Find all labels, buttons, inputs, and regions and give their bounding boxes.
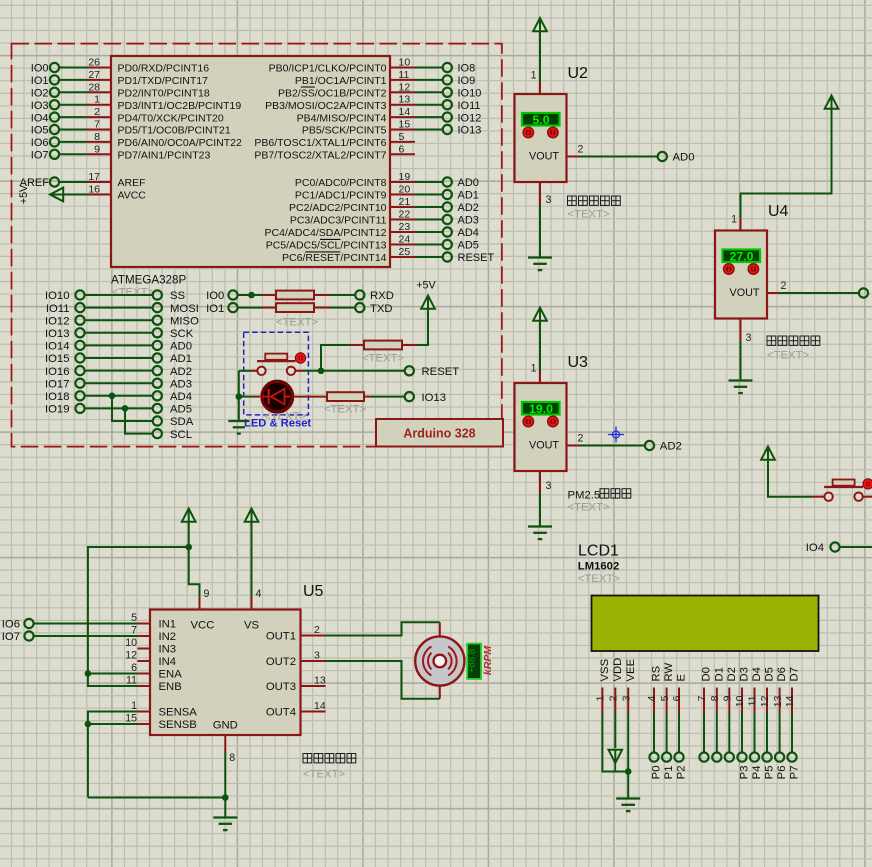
svg-text:+88.8: +88.8	[466, 649, 477, 673]
svg-text:OUT3: OUT3	[266, 681, 296, 693]
svg-text:LCD1: LCD1	[578, 543, 619, 560]
svg-text:3: 3	[546, 194, 552, 206]
svg-text:PC0/ADC0/PCINT8: PC0/ADC0/PCINT8	[295, 177, 387, 189]
svg-text:PB1/OC1A/PCINT1: PB1/OC1A/PCINT1	[295, 75, 387, 87]
svg-text:<TEXT>: <TEXT>	[276, 317, 318, 329]
svg-text:AD0: AD0	[458, 177, 479, 189]
svg-text:U4: U4	[768, 203, 789, 220]
svg-text:E: E	[676, 674, 688, 682]
svg-text:P7: P7	[789, 766, 801, 780]
svg-text:PM2.5: PM2.5	[568, 490, 601, 502]
svg-text:IO1: IO1	[206, 303, 224, 315]
svg-text:IO17: IO17	[45, 378, 70, 390]
svg-text:IO19: IO19	[45, 404, 70, 416]
svg-text:15: 15	[125, 712, 137, 724]
svg-text:IO5: IO5	[31, 125, 49, 137]
svg-text:IO13: IO13	[45, 328, 70, 340]
svg-text:PB0/ICP1/CLKO/PCINT0: PB0/ICP1/CLKO/PCINT0	[269, 63, 387, 75]
svg-text:IO6: IO6	[31, 137, 49, 149]
svg-text:PB7/TOSC2/XTAL2/PCINT7: PB7/TOSC2/XTAL2/PCINT7	[254, 150, 386, 162]
svg-text:22: 22	[399, 209, 411, 221]
svg-text:LM1602: LM1602	[578, 561, 619, 573]
svg-text:ATMEGA328P: ATMEGA328P	[111, 274, 186, 287]
svg-text:2: 2	[578, 144, 584, 156]
svg-text:14: 14	[314, 700, 326, 712]
svg-text:TXD: TXD	[370, 303, 393, 315]
svg-text:13: 13	[399, 94, 411, 106]
svg-text:1: 1	[94, 94, 100, 106]
svg-text:8: 8	[709, 695, 721, 701]
svg-text:AD2: AD2	[170, 366, 192, 378]
svg-text:PC3/ADC3/PCINT11: PC3/ADC3/PCINT11	[290, 215, 387, 227]
svg-text:13: 13	[772, 695, 784, 707]
svg-text:PD5/T1/OC0B/PCINT21: PD5/T1/OC0B/PCINT21	[118, 125, 231, 137]
svg-text:IO18: IO18	[45, 391, 70, 403]
svg-text:PB3/MOSI/OC2A/PCINT3: PB3/MOSI/OC2A/PCINT3	[265, 100, 387, 112]
svg-text:D1: D1	[713, 667, 725, 681]
svg-text:IO2: IO2	[31, 88, 49, 100]
svg-text:11: 11	[747, 695, 759, 706]
svg-text:2: 2	[781, 280, 787, 292]
svg-text:P3: P3	[739, 766, 751, 780]
svg-text:VCC: VCC	[191, 620, 215, 632]
svg-text:D4: D4	[751, 667, 763, 681]
svg-text:PD6/AIN0/OC0A/PCINT22: PD6/AIN0/OC0A/PCINT22	[118, 137, 242, 149]
svg-text:<TEXT>: <TEXT>	[568, 502, 610, 514]
svg-text:2: 2	[608, 695, 620, 701]
svg-text:3: 3	[546, 480, 552, 492]
svg-text:8: 8	[94, 131, 100, 143]
svg-text:PD7/AIN1/PCINT23: PD7/AIN1/PCINT23	[118, 150, 211, 162]
svg-text:AREF: AREF	[118, 177, 146, 189]
svg-text:10: 10	[399, 57, 411, 69]
svg-text:PB2/SS/OC1B/PCINT2: PB2/SS/OC1B/PCINT2	[278, 88, 387, 100]
svg-text:ENA: ENA	[159, 669, 183, 681]
svg-text:IO4: IO4	[806, 542, 824, 554]
svg-text:P5: P5	[764, 766, 776, 780]
svg-text:RESET: RESET	[422, 366, 460, 378]
svg-text:<TEXT>: <TEXT>	[578, 573, 620, 585]
svg-text:5: 5	[399, 131, 405, 143]
svg-text:IO0: IO0	[206, 290, 224, 302]
svg-text:P6: P6	[776, 766, 788, 780]
svg-text:14: 14	[784, 695, 796, 707]
svg-text:U5: U5	[303, 583, 324, 600]
svg-text:P2: P2	[676, 766, 688, 780]
svg-text:PB6/TOSC1/XTAL1/PCINT6: PB6/TOSC1/XTAL1/PCINT6	[254, 137, 386, 149]
svg-text:P1: P1	[663, 766, 675, 780]
svg-text:IO6: IO6	[2, 619, 20, 631]
svg-text:ENB: ENB	[159, 681, 182, 693]
svg-text:12: 12	[759, 695, 771, 707]
svg-text:IO4: IO4	[31, 112, 49, 124]
svg-text:23: 23	[399, 221, 411, 233]
svg-text:28: 28	[88, 81, 100, 93]
svg-text:7: 7	[94, 119, 100, 131]
svg-text:IO0: IO0	[31, 63, 49, 75]
svg-text:PC4/ADC4/SDA/PCINT12: PC4/ADC4/SDA/PCINT12	[265, 227, 387, 239]
svg-text:15: 15	[399, 119, 411, 131]
svg-text:VS: VS	[244, 620, 260, 632]
svg-text:PD1/TXD/PCINT17: PD1/TXD/PCINT17	[118, 75, 209, 87]
svg-text:9: 9	[722, 695, 734, 701]
svg-text:7: 7	[131, 624, 137, 636]
svg-text:PD0/RXD/PCINT16: PD0/RXD/PCINT16	[118, 63, 210, 75]
svg-text:VOUT: VOUT	[529, 151, 559, 163]
svg-text:PD2/INT0/PCINT18: PD2/INT0/PCINT18	[118, 88, 210, 100]
svg-text:IO10: IO10	[458, 88, 482, 100]
svg-text:21: 21	[399, 196, 411, 208]
svg-text:RW: RW	[663, 663, 675, 682]
svg-text:AD4: AD4	[458, 227, 479, 239]
svg-text:14: 14	[399, 106, 411, 118]
svg-text:AD3: AD3	[458, 215, 479, 227]
svg-text:6: 6	[131, 662, 137, 674]
svg-text:IO7: IO7	[2, 631, 20, 643]
svg-text:OUT1: OUT1	[266, 631, 296, 643]
svg-text:Arduino 328: Arduino 328	[403, 427, 475, 441]
svg-text:MOSI: MOSI	[170, 303, 199, 315]
svg-text:2: 2	[578, 433, 584, 445]
svg-text:MISO: MISO	[170, 315, 199, 327]
svg-text:IO16: IO16	[45, 366, 70, 378]
svg-text:IO13: IO13	[422, 392, 447, 404]
svg-text:24: 24	[399, 234, 411, 246]
svg-text:LED & Reset: LED & Reset	[244, 417, 311, 429]
svg-text:4: 4	[646, 695, 658, 701]
svg-text:PD4/T0/XCK/PCINT20: PD4/T0/XCK/PCINT20	[118, 112, 224, 124]
svg-text:VOUT: VOUT	[730, 287, 760, 299]
svg-text:IO3: IO3	[31, 100, 49, 112]
svg-text:AD0: AD0	[673, 152, 695, 164]
svg-text:SCL: SCL	[170, 429, 192, 441]
svg-text:P0: P0	[651, 766, 663, 780]
svg-text:IN4: IN4	[159, 656, 177, 668]
svg-text:2: 2	[314, 624, 320, 636]
svg-text:SCK: SCK	[170, 328, 194, 340]
svg-text:+5V: +5V	[18, 184, 30, 204]
svg-text:SDA: SDA	[170, 416, 194, 428]
svg-text:11: 11	[399, 69, 410, 81]
svg-text:VSS: VSS	[599, 658, 611, 681]
svg-text:<TEXT>: <TEXT>	[324, 404, 366, 416]
svg-text:3: 3	[314, 650, 320, 662]
svg-text:9: 9	[204, 588, 210, 600]
svg-text:6: 6	[671, 695, 683, 701]
svg-text:SS: SS	[170, 290, 186, 302]
svg-text:7: 7	[696, 695, 708, 701]
svg-text:5: 5	[659, 695, 671, 701]
svg-text:<TEXT>: <TEXT>	[568, 209, 610, 221]
svg-text:AD2: AD2	[458, 202, 479, 214]
svg-text:IN1: IN1	[159, 619, 177, 631]
svg-text:9: 9	[94, 143, 100, 155]
svg-text:P4: P4	[751, 766, 763, 780]
svg-text:OUT2: OUT2	[266, 656, 296, 668]
svg-text:IO14: IO14	[45, 341, 70, 353]
svg-text:VOUT: VOUT	[529, 440, 559, 452]
svg-text:1: 1	[131, 700, 137, 712]
svg-text:27: 27	[88, 69, 100, 81]
svg-text:AD5: AD5	[458, 240, 479, 252]
svg-text:RESET: RESET	[458, 252, 495, 264]
svg-text:PC1/ADC1/PCINT9: PC1/ADC1/PCINT9	[295, 190, 387, 202]
svg-text:PB4/MISO/PCINT4: PB4/MISO/PCINT4	[297, 112, 387, 124]
svg-text:1: 1	[531, 363, 537, 375]
svg-text:1: 1	[595, 695, 607, 701]
svg-text:10: 10	[125, 637, 137, 649]
svg-text:6: 6	[399, 143, 405, 155]
svg-text:AD1: AD1	[170, 353, 192, 365]
svg-text:IO9: IO9	[458, 75, 476, 87]
svg-text:16: 16	[88, 184, 100, 196]
svg-text:<TEXT>: <TEXT>	[362, 353, 404, 365]
svg-text:IO10: IO10	[45, 290, 70, 302]
svg-text:10: 10	[734, 695, 746, 707]
svg-text:+5V: +5V	[416, 280, 436, 292]
svg-text:D6: D6	[776, 667, 788, 681]
svg-text:VEE: VEE	[625, 658, 637, 681]
svg-text:4: 4	[256, 588, 262, 600]
svg-text:IO11: IO11	[458, 100, 481, 112]
svg-text:PB5/SCK/PCINT5: PB5/SCK/PCINT5	[302, 125, 387, 137]
svg-text:IO15: IO15	[45, 353, 70, 365]
svg-text:D3: D3	[739, 667, 751, 681]
svg-text:PD3/INT1/OC2B/PCINT19: PD3/INT1/OC2B/PCINT19	[118, 100, 242, 112]
svg-text:PC6/RESET/PCINT14: PC6/RESET/PCINT14	[282, 252, 387, 264]
svg-text:AD2: AD2	[660, 441, 682, 453]
svg-text:<TEXT>: <TEXT>	[767, 350, 809, 362]
svg-text:RXD: RXD	[370, 290, 394, 302]
svg-text:8: 8	[229, 752, 235, 764]
svg-text:IO12: IO12	[458, 112, 482, 124]
svg-text:AD1: AD1	[458, 190, 479, 202]
svg-text:19: 19	[399, 171, 411, 183]
svg-text:PC2/ADC2/PCINT10: PC2/ADC2/PCINT10	[289, 202, 387, 214]
svg-text:27.0: 27.0	[730, 250, 754, 264]
svg-text:PC5/ADC5/SCL/PCINT13: PC5/ADC5/SCL/PCINT13	[266, 240, 387, 252]
svg-text:17: 17	[88, 171, 100, 183]
svg-text:D7: D7	[789, 667, 801, 681]
svg-text:<TEXT>: <TEXT>	[112, 287, 154, 299]
svg-text:IO11: IO11	[46, 303, 70, 315]
svg-text:5.0: 5.0	[532, 113, 549, 127]
svg-text:kRPM: kRPM	[482, 646, 494, 675]
svg-text:AVCC: AVCC	[118, 190, 147, 202]
svg-text:D0: D0	[701, 667, 713, 681]
svg-text:GND: GND	[213, 720, 238, 732]
svg-text:25: 25	[399, 246, 411, 258]
svg-text:D5: D5	[764, 667, 776, 681]
svg-text:AD0: AD0	[170, 341, 192, 353]
svg-text:12: 12	[399, 81, 411, 93]
svg-text:5: 5	[131, 612, 137, 624]
svg-text:U3: U3	[568, 354, 589, 371]
svg-text:IN3: IN3	[159, 644, 177, 656]
svg-text:IO7: IO7	[31, 150, 49, 162]
svg-text:11: 11	[126, 674, 137, 686]
svg-text:12: 12	[125, 649, 137, 661]
svg-text:IO8: IO8	[458, 63, 476, 75]
svg-text:3: 3	[620, 695, 632, 701]
svg-text:20: 20	[399, 184, 411, 196]
svg-text:19.0: 19.0	[529, 402, 553, 416]
svg-text:IO13: IO13	[458, 125, 482, 137]
svg-text:SENSA: SENSA	[159, 707, 198, 719]
svg-text:13: 13	[314, 675, 326, 687]
svg-text:<TEXT>: <TEXT>	[303, 769, 345, 781]
svg-text:AD4: AD4	[170, 391, 192, 403]
svg-text:1: 1	[531, 70, 537, 82]
svg-text:3: 3	[746, 332, 752, 344]
svg-text:IO12: IO12	[45, 315, 70, 327]
svg-text:AD5: AD5	[170, 404, 192, 416]
svg-text:IN2: IN2	[159, 631, 177, 643]
svg-text:OUT4: OUT4	[266, 707, 296, 719]
svg-text:U2: U2	[568, 65, 589, 82]
svg-text:IO1: IO1	[31, 75, 49, 87]
svg-text:VDD: VDD	[612, 658, 624, 682]
svg-text:1: 1	[731, 214, 737, 226]
svg-text:RS: RS	[651, 665, 663, 681]
svg-text:D2: D2	[726, 667, 738, 681]
svg-text:AD3: AD3	[170, 378, 192, 390]
svg-text:26: 26	[88, 57, 100, 69]
svg-text:2: 2	[94, 106, 100, 118]
svg-text:SENSB: SENSB	[159, 719, 197, 731]
